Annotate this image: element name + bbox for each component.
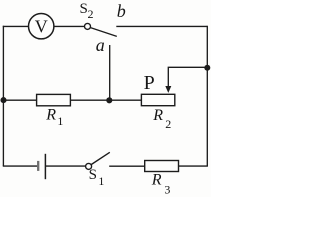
- svg-text:2: 2: [165, 117, 171, 131]
- switch S1 contact circle: [86, 163, 92, 169]
- resistor R3: [145, 161, 179, 172]
- junction dot on right rail: [204, 65, 210, 71]
- switch S1 blade: [91, 152, 110, 164]
- wire: wiper from right rail: [168, 67, 207, 86]
- svg-text:R: R: [151, 171, 162, 188]
- node a wire: vertical from contact a to middle wire: [109, 45, 111, 100]
- wire: S1 to R3: [109, 165, 145, 167]
- svg-text:a: a: [96, 35, 105, 55]
- junction dot left rail / middle wire: [0, 97, 6, 103]
- svg-text:1: 1: [98, 174, 104, 188]
- battery long plate (positive): [44, 154, 46, 179]
- voltmeter U: circle: [29, 14, 54, 39]
- wire: middle left to R1: [3, 99, 37, 101]
- svg-text:3: 3: [164, 182, 170, 196]
- junction dot middle wire / node a: [106, 97, 112, 103]
- resistor R1: [37, 94, 71, 105]
- wiper arrowhead onto R2: [165, 86, 171, 93]
- svg-text:b: b: [117, 1, 126, 21]
- wire: bottom left: [3, 165, 38, 167]
- svg-text:V: V: [35, 17, 48, 37]
- svg-text:S: S: [89, 167, 97, 183]
- wire: R1 to R2: [70, 99, 141, 101]
- wire: right rail: [206, 26, 208, 166]
- svg-text:1: 1: [57, 114, 63, 128]
- wire: R3 to bottom right corner: [179, 165, 208, 167]
- wire: left rail: [2, 26, 4, 166]
- svg-text:R: R: [45, 106, 56, 123]
- switch S2 contact circle: [85, 23, 91, 29]
- wire: voltmeter to switch S2: [54, 25, 84, 27]
- svg-text:P: P: [144, 72, 155, 94]
- battery short plate (negative): [37, 161, 39, 171]
- wire: top-left to voltmeter: [3, 25, 29, 27]
- potentiometer R2: [141, 94, 174, 105]
- wire: battery to S1: [46, 165, 86, 167]
- svg-text:2: 2: [88, 7, 94, 21]
- node b / wire: top right: [116, 25, 207, 27]
- svg-text:R: R: [152, 107, 163, 124]
- switch S2 blade: [91, 28, 117, 37]
